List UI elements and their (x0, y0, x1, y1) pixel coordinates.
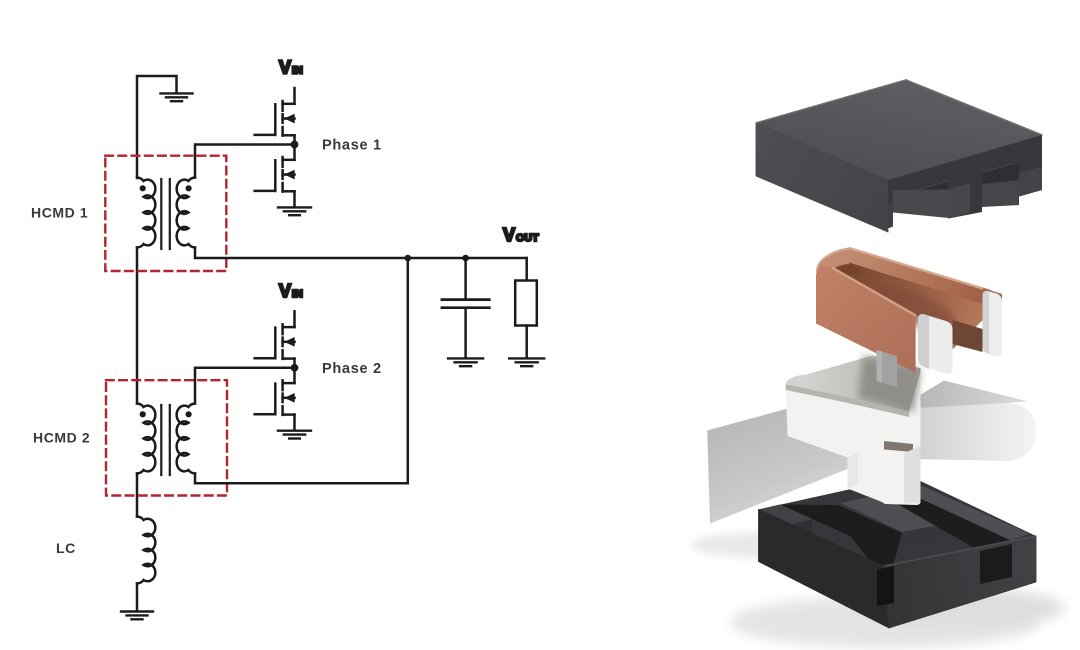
ground (phase 2) (278, 431, 311, 439)
top core: top face (756, 80, 1042, 180)
copper clip: outer left corner (816, 248, 849, 281)
bottom clip: right plate top face (920, 381, 1028, 409)
top core: slot 2 ceiling (982, 162, 1019, 185)
ground (top left) (161, 93, 193, 101)
copper clip: plated end far (983, 291, 1003, 357)
transformer HCMD 2 : secondary winding (177, 404, 195, 474)
bottom clip: hook notch (884, 441, 913, 452)
ground (capacitor) (448, 358, 483, 366)
bottom core: left rim end face (790, 519, 813, 542)
bottom core: groove 1 (780, 505, 902, 570)
transistor Q4 (low side, phase 2) (293, 368, 296, 383)
svg-text:Phase 1: Phase 1 (322, 138, 382, 154)
svg-text:V: V (279, 58, 291, 78)
transformer HCMD 1 : secondary winding (177, 178, 195, 248)
svg-text:OUT: OUT (516, 232, 539, 244)
svg-text:IN: IN (292, 288, 303, 300)
bottom core: right rim top (902, 486, 1030, 541)
wire: left bus between T1 and T2 (136, 248, 139, 404)
bottom core: groove 2 front notch (980, 544, 1012, 584)
top core: left block side face (888, 203, 893, 229)
wire: top elbow to ground (137, 76, 177, 178)
copper clip: plated end near (918, 314, 953, 374)
bottom clip: leg right shading (904, 446, 921, 504)
wire: T1 secondary bottom to output rail (195, 248, 527, 259)
top core: right block front (1019, 167, 1042, 197)
transformer HCMD 2 : polarity dots (140, 411, 146, 417)
transformer HCMD 1 : primary winding (137, 178, 155, 248)
bottom clip: body silhouette (786, 356, 921, 506)
inductor LC (137, 517, 155, 584)
wire: phase 2 (195, 368, 295, 404)
wire: T2 secondary bottom feedback loop (195, 258, 408, 483)
node: HCMD1 box (red dashed) (105, 156, 226, 271)
bottom core: left rim top (759, 505, 813, 526)
node: feedback junction (405, 255, 412, 262)
bottom core: top face (759, 476, 1037, 566)
bottom clip: fold band (786, 384, 909, 417)
bottom core: center rib top (841, 495, 943, 533)
svg-text:HCMD 2: HCMD 2 (33, 430, 90, 446)
copper clip: cavity shadow (863, 277, 960, 340)
node: HCMD2 box (red dashed) (106, 380, 227, 495)
transformer HCMD 2 : primary winding (137, 404, 155, 474)
copper clip: hook notch (953, 320, 983, 352)
bottom core: front-right face (884, 536, 1036, 628)
bottom clip: plate shadow under copper (858, 356, 921, 412)
top core: slot 2 back wall (982, 180, 1019, 207)
copper clip: left inner curl (836, 265, 862, 282)
top core: slot 1 back wall (893, 190, 949, 219)
ground (phase 1) (278, 207, 311, 215)
transformer HCMD 1 : core (161, 179, 170, 249)
top core: mid tab front (949, 183, 971, 219)
node: phase 1 junction (291, 141, 299, 149)
copper clip: rear wall inner face (849, 248, 991, 309)
bottom core: groove 1 front notch (877, 566, 894, 606)
svg-text:LC: LC (56, 540, 76, 556)
copper clip: cavity (831, 263, 991, 350)
copper clip: right end wall (983, 288, 1002, 314)
top core: front-left face (756, 123, 888, 232)
wire: Q3 source to phase node (293, 359, 296, 368)
gray post (877, 350, 898, 387)
bottom core: groove 2 (881, 490, 1010, 549)
wire: Q2 source to ground (293, 191, 296, 205)
svg-text:IN: IN (292, 65, 303, 77)
top core: slot 1 ceiling (893, 181, 949, 197)
wire: Q1 source to phase node (293, 135, 296, 144)
node: capacitor junction (462, 255, 469, 262)
svg-text:Phase 2: Phase 2 (322, 361, 382, 377)
transistor Q2 (low side, phase 1) (293, 145, 296, 160)
shadow under bottom core (730, 596, 1040, 648)
wire: left bus T2 to LC (136, 474, 139, 517)
shadow under metal sheet (690, 532, 840, 558)
capacitor C1 (464, 258, 467, 298)
wire: Q4 source to ground (293, 415, 296, 429)
bottom core: front-left face (759, 510, 890, 629)
bottom clip: leg left fold (848, 453, 858, 489)
svg-text:HCMD 1: HCMD 1 (31, 205, 88, 221)
bottom core: center rib end face (902, 525, 943, 551)
transformer HCMD 1 : polarity dots (140, 185, 146, 191)
resistor R1 (load) (525, 258, 528, 281)
bottom clip: right plate front face (881, 403, 1036, 461)
ground (load) (509, 358, 544, 366)
copper clip: front panel (816, 266, 916, 373)
terminal sheet (707, 393, 850, 524)
svg-text:V: V (503, 225, 515, 245)
wire: LC to ground (136, 584, 139, 610)
transistor Q3 (high side, phase 2) (293, 311, 296, 327)
ground (bottom left) (121, 612, 153, 620)
bottom clip: top plate shading (786, 356, 921, 412)
transistor Q1 (high side, phase 1) (293, 88, 296, 104)
node: phase 2 junction (291, 364, 299, 372)
wire: phase 1 (195, 145, 295, 178)
svg-text:V: V (279, 281, 291, 301)
transformer HCMD 2 : core (161, 405, 170, 475)
top core: right face with slots and tabs (888, 135, 1042, 228)
